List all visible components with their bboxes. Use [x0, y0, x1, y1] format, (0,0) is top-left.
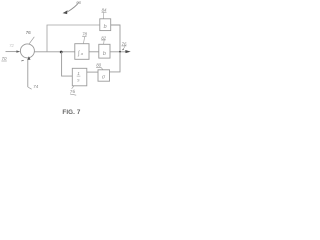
- value label inside box C : 1 over s: [77, 71, 81, 83]
- svg-text:74: 74: [33, 84, 39, 89]
- svg-text:∫: ∫: [77, 50, 80, 57]
- assembly arrow top (curved leader with arrowhead): [68, 2, 79, 11]
- background: [0, 0, 133, 120]
- wire branch down to box C: [62, 52, 73, 76]
- wire right riser down to box D: [110, 52, 121, 72]
- box D: [98, 70, 110, 81]
- svg-text:84: 84: [102, 8, 107, 13]
- svg-text:76: 76: [70, 89, 76, 95]
- wire box D to box C: [87, 71, 98, 73]
- label 70 (left, below input): [1, 56, 7, 61]
- svg-text:b: b: [104, 24, 107, 30]
- svg-text:80: 80: [96, 63, 101, 68]
- label 74 output (above line right of riser): [121, 41, 127, 50]
- top box: [100, 19, 111, 31]
- wire feedback into circle bottom: [27, 60, 29, 88]
- box A (integrator): [75, 44, 89, 60]
- output arrowhead: [125, 50, 130, 53]
- box B: [99, 44, 110, 58]
- arrowhead into summing junction: [16, 50, 20, 52]
- svg-text:b: b: [103, 51, 106, 57]
- wire main line circle to box A: [34, 51, 74, 53]
- svg-text:1: 1: [77, 71, 80, 76]
- svg-text:78: 78: [82, 32, 87, 37]
- node junction dot on main line: [60, 51, 63, 54]
- node output junction dot: [119, 51, 121, 53]
- label 80 above box D with leader: [96, 63, 103, 70]
- wire top box to right riser: [111, 25, 120, 51]
- wire left riser to top row: [47, 25, 100, 52]
- box C (1/s): [72, 68, 87, 86]
- svg-text:70: 70: [2, 56, 8, 61]
- label 82 above box B with leader: [101, 35, 106, 44]
- svg-text:76: 76: [26, 30, 32, 35]
- svg-text:82: 82: [101, 35, 106, 40]
- arrowhead up into circle: [27, 56, 30, 60]
- label 78 above box A with leader: [82, 32, 87, 44]
- label 76 above circle with leader: [26, 30, 35, 44]
- svg-text:76: 76: [122, 41, 127, 46]
- wire output line with junction: [110, 51, 127, 53]
- label 76 below box C with leader: [70, 86, 77, 95]
- label 84 above top box with leader: [102, 8, 108, 19]
- minus sign at lower-left of circle: [21, 59, 23, 62]
- wire box A to box B: [89, 51, 99, 53]
- svg-text:FIG. 7: FIG. 7: [62, 109, 80, 116]
- leader tail at bottom of feedback wire: [28, 87, 32, 89]
- label 74 (bottom left wire): [33, 84, 39, 89]
- svg-text:66: 66: [76, 0, 81, 5]
- svg-text:72: 72: [9, 43, 14, 48]
- wire input line: [6, 51, 17, 53]
- summing junction circle: [20, 44, 34, 58]
